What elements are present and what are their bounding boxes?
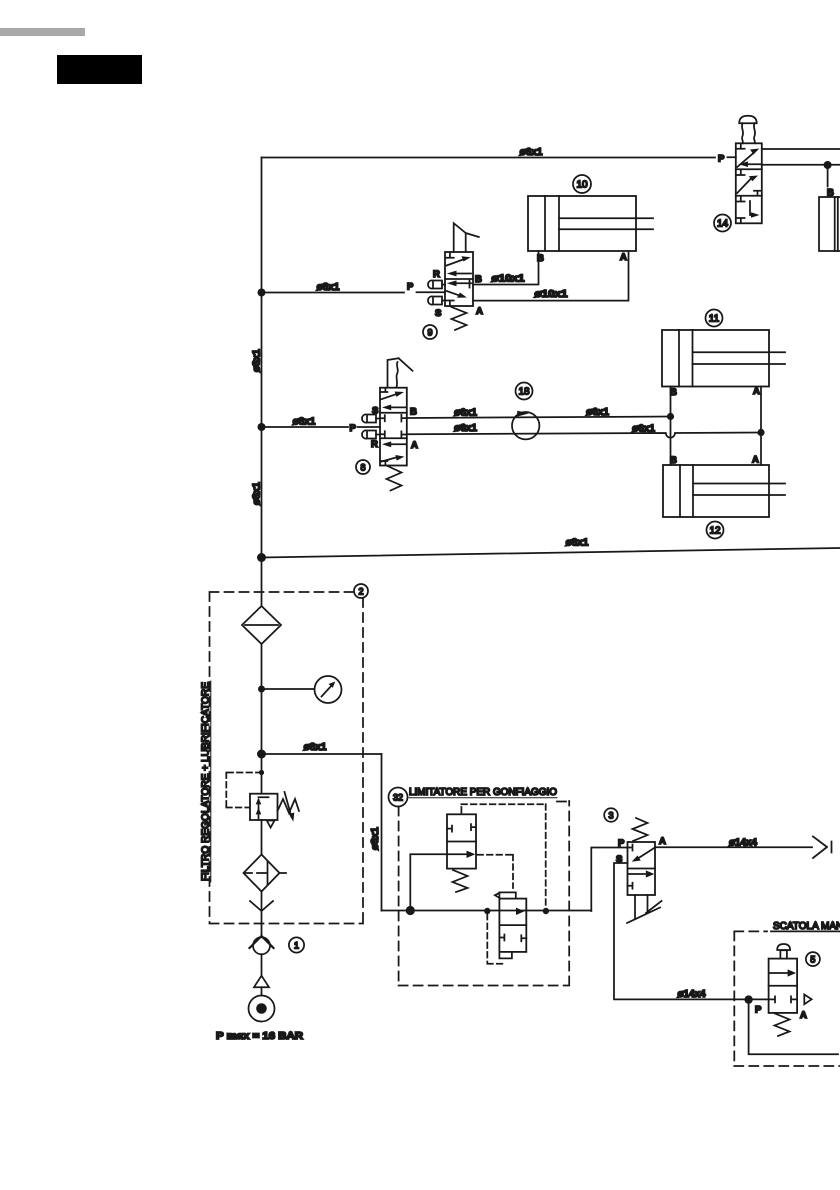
svg-text:R: R xyxy=(433,269,440,280)
rotary union 18 xyxy=(512,412,539,439)
svg-text:S: S xyxy=(372,406,378,417)
node: branch to limiter line xyxy=(257,750,266,759)
svg-text:3: 3 xyxy=(608,811,613,821)
wire: main supply bus vertical (ø8x1) xyxy=(261,158,263,996)
valve 8 return spring xyxy=(387,466,402,491)
cylinder 10 piston xyxy=(558,196,560,251)
wire: down and right to spare outlet xyxy=(749,1000,838,1055)
component number circle 3 xyxy=(604,808,618,822)
hose end connector arrow xyxy=(813,837,832,859)
cylinder 11 piston xyxy=(692,330,694,387)
svg-text:32: 32 xyxy=(393,793,403,803)
svg-text:5: 5 xyxy=(810,955,815,965)
svg-text:ø6x1: ø6x1 xyxy=(520,147,543,158)
limiter stage valve pilot cap xyxy=(499,892,515,898)
gray header bar xyxy=(0,28,85,36)
cylinder 10 body xyxy=(528,196,636,251)
svg-text:ø8x1: ø8x1 xyxy=(252,349,263,372)
air source S1 xyxy=(249,996,275,1022)
component number circle 14 xyxy=(714,215,731,232)
svg-text:P: P xyxy=(407,282,414,293)
cylinder 11 rod xyxy=(693,352,786,364)
valve 8 internals section 3 xyxy=(386,443,406,445)
wire: valve 8 B line ø6x1 to cylinders 11/12 B xyxy=(407,417,671,419)
cylinder 10 rear cap xyxy=(544,196,546,251)
component number circle 5 xyxy=(806,952,820,966)
svg-text:12: 12 xyxy=(709,526,721,537)
valve 9 body (5/2 lever valve) xyxy=(445,252,473,306)
valve 9 internals bottom section xyxy=(451,282,471,284)
node: pilot tap on bus xyxy=(259,770,264,775)
svg-text:R: R xyxy=(371,439,378,450)
inflation limiter dashed enclosure xyxy=(399,801,570,986)
svg-text:B: B xyxy=(670,455,677,466)
cylinder 12 rod xyxy=(693,484,785,496)
valve 5 spring xyxy=(775,1014,790,1037)
regulator vent triangle xyxy=(267,821,275,828)
relief valve flow arrow bottom section xyxy=(448,853,467,855)
wire: valve 3 A line ø14x4 to hose connection xyxy=(655,846,812,848)
node: bus to valve 8 branch xyxy=(258,423,266,431)
valve 14 body (5/3 push-button valve) xyxy=(736,143,762,223)
valve 9 exhaust muffler R xyxy=(428,280,442,288)
node: junction before valve 5 xyxy=(744,995,752,1003)
svg-text:P max = 16 BAR: P max = 16 BAR xyxy=(216,1031,304,1042)
svg-text:8: 8 xyxy=(360,463,365,473)
filter F1 diamond xyxy=(242,606,281,644)
node: A riser junction xyxy=(757,429,764,436)
valve 5 body (push button valve) xyxy=(769,959,798,1013)
limiter stage valve exhaust tab xyxy=(499,952,512,959)
cylinder 10 rod xyxy=(559,218,653,229)
FRL unit dashed enclosure 2 xyxy=(210,592,364,924)
valve 9 exhaust muffler S xyxy=(428,296,442,304)
svg-text:ø6x1: ø6x1 xyxy=(632,424,655,435)
svg-text:14: 14 xyxy=(717,219,729,230)
cylinder 13 body (cut off at page edge) xyxy=(819,197,840,251)
node: bus to long bottom line xyxy=(257,553,266,562)
node: B riser junction xyxy=(667,413,674,420)
valve 9 return spring xyxy=(452,307,467,330)
svg-text:ø14x4: ø14x4 xyxy=(729,838,757,849)
svg-text:A: A xyxy=(800,1010,807,1021)
wire: valve 3 S line down and right xyxy=(614,863,749,999)
component number circle 1 xyxy=(289,937,304,952)
node: bus to valve 9 branch xyxy=(258,289,266,297)
svg-text:P: P xyxy=(718,154,725,165)
svg-text:S: S xyxy=(435,308,441,319)
component number circle 2 xyxy=(354,584,368,598)
valve 8 internals section 1 xyxy=(381,388,387,392)
wire: branch ø8x1 to limiter drop xyxy=(262,753,382,755)
pilot dashed line stage valve xyxy=(487,914,504,964)
pilot dashed line relief valve xyxy=(461,804,545,906)
svg-text:ø8x1: ø8x1 xyxy=(293,417,316,428)
relief valve closed ports top section xyxy=(447,824,476,832)
wire: valve 9 A to cylinder 10 A (ø10x1) xyxy=(473,251,629,301)
lubricator drip V xyxy=(250,901,273,911)
node: stage valve inlet junction xyxy=(484,908,490,914)
svg-text:A: A xyxy=(620,252,627,263)
check valve 1 ball xyxy=(253,937,270,954)
pilot line dashed to regulator xyxy=(226,773,261,808)
cylinder 13 rear cap xyxy=(834,197,836,251)
svg-text:1: 1 xyxy=(294,941,299,951)
wire: top header line ø6x1 xyxy=(262,156,736,158)
wire: limiter main line xyxy=(382,910,592,912)
wire: long bottom distribution line ø8x1 xyxy=(262,548,840,558)
component number circle 32 xyxy=(389,788,408,807)
wire: valve 14 second output to right edge xyxy=(762,164,840,166)
valve 8 exhaust muffler S xyxy=(362,414,376,422)
valve 9 muffler S stub xyxy=(442,300,445,302)
scatola dashed enclosure xyxy=(734,931,840,1066)
valve 14 internals section 1 xyxy=(737,144,744,149)
valve 8 muffler R stub xyxy=(376,434,380,436)
component number circle 12 xyxy=(707,522,724,539)
svg-text:SCATOLA MANO: SCATOLA MANO xyxy=(773,921,840,932)
svg-text:A: A xyxy=(659,836,666,847)
valve 14 internals section 2 xyxy=(737,170,744,175)
limiter stage valve flow arrow xyxy=(516,908,525,915)
node: branch to cylinder 13 xyxy=(824,161,832,169)
regulator spring xyxy=(278,799,300,813)
wire: to valve 5 P xyxy=(749,998,769,1000)
limiter stage valve body xyxy=(499,899,526,952)
wire: feed to relief valve xyxy=(410,854,447,910)
svg-text:9: 9 xyxy=(427,328,432,338)
svg-text:P: P xyxy=(755,1005,762,1016)
valve 3 spring xyxy=(633,818,648,841)
valve 3 top section internals xyxy=(628,845,633,851)
valve 3 pedal actuator xyxy=(627,895,662,923)
cylinder 11 rear cap xyxy=(678,330,680,387)
svg-text:ø14x4: ø14x4 xyxy=(678,989,706,1000)
svg-text:B: B xyxy=(670,387,677,398)
pressure gauge G1 xyxy=(315,676,342,703)
component number circle 11 xyxy=(706,310,723,327)
wire: P line to valve 8 (ø8x1) xyxy=(262,426,381,428)
node: stage valve outlet junction xyxy=(543,908,549,914)
wire: drop line to limiter group xyxy=(381,754,383,911)
valve 5 bottom section closed ports xyxy=(770,996,796,1002)
label SCATOLA MAN underline xyxy=(771,930,840,932)
regulator adjusting arrow xyxy=(285,792,292,817)
supply connection triangle xyxy=(254,976,269,988)
svg-text:A: A xyxy=(476,306,483,317)
valve 3 body (deflate valve) xyxy=(628,842,656,895)
valve 8 body (5/3 lever valve) xyxy=(380,388,407,466)
component number circle 10 xyxy=(573,175,591,193)
svg-text:A: A xyxy=(753,386,760,397)
cylinder 12 rear cap xyxy=(679,465,681,517)
svg-text:FILTRO REGOLATORE + LUBRIFICAT: FILTRO REGOLATORE + LUBRIFICATORE xyxy=(201,682,212,881)
component number circle 8 xyxy=(356,460,370,474)
svg-text:ø6x1: ø6x1 xyxy=(454,408,477,419)
svg-text:ø8x1: ø8x1 xyxy=(370,827,381,850)
svg-text:ø10x1: ø10x1 xyxy=(492,274,526,285)
valve 5 push button xyxy=(780,950,787,958)
wire: riser to valve 3 P xyxy=(591,848,627,912)
svg-text:LIMITATORE PER GONFIAGGIO: LIMITATORE PER GONFIAGGIO xyxy=(409,787,557,798)
valve 3 bottom section internals xyxy=(629,873,646,875)
wire: A riser cylinder 11 A to cylinder 12 A xyxy=(760,387,762,466)
wire: valve 9 B to cylinder 10 B (ø10x1) xyxy=(473,251,539,285)
relief valve spring xyxy=(453,870,468,892)
svg-text:2: 2 xyxy=(358,587,363,597)
valve 5 exhaust triangle xyxy=(804,995,811,1005)
node: gauge branch xyxy=(258,686,265,693)
valve 9 internals top section xyxy=(446,253,454,258)
valve 14 internals section 3 xyxy=(737,197,744,202)
svg-text:ø6x1: ø6x1 xyxy=(454,423,477,434)
check valve 1 seat xyxy=(250,936,274,948)
wire: down to cylinder 13 port B xyxy=(827,165,829,187)
valve 8 internals closed centre section xyxy=(380,415,407,422)
valve 8 muffler S stub xyxy=(376,418,380,420)
svg-text:A: A xyxy=(411,440,418,451)
svg-text:ø8x1: ø8x1 xyxy=(304,742,327,753)
wire: valve 8 A line ø6x1 with hop over B riser xyxy=(407,433,761,438)
valve 8 lever actuator xyxy=(388,358,413,387)
svg-text:18: 18 xyxy=(518,387,530,398)
cylinder 12 piston xyxy=(692,465,694,517)
svg-text:ø6x1: ø6x1 xyxy=(586,407,609,418)
svg-text:10: 10 xyxy=(576,180,588,191)
svg-text:P: P xyxy=(350,423,357,434)
svg-text:ø8x1: ø8x1 xyxy=(566,538,589,549)
cylinder 11 body xyxy=(662,330,769,387)
wire: to pressure gauge xyxy=(262,688,315,690)
component number circle 9 xyxy=(423,325,437,339)
valve 8 exhaust muffler R xyxy=(362,430,376,438)
cylinder 13 piston xyxy=(837,197,839,251)
relief pilot valve body xyxy=(447,814,476,868)
lubricator L1 diamond xyxy=(244,855,280,892)
svg-text:A: A xyxy=(752,455,759,466)
pressure regulator R1 body xyxy=(250,794,278,820)
pilot dashed line relief to stage valve xyxy=(478,855,514,888)
valve 5 top section flow arrow xyxy=(770,972,787,974)
valve 14 push button actuator xyxy=(739,116,757,124)
cylinder 12 body xyxy=(663,465,769,517)
svg-text:ø8x1: ø8x1 xyxy=(252,482,263,505)
svg-text:B: B xyxy=(537,253,544,264)
node: limiter main junction xyxy=(406,906,415,915)
svg-text:B: B xyxy=(410,407,417,418)
limiter stage valve closed ports xyxy=(499,935,526,942)
wire: B riser cylinder 11 B to cylinder 12 B xyxy=(670,387,672,466)
valve 9 muffler R stub xyxy=(442,284,445,286)
svg-text:ø10x1: ø10x1 xyxy=(535,289,569,300)
svg-text:B: B xyxy=(475,274,482,285)
svg-text:11: 11 xyxy=(709,314,720,325)
component number circle 18 xyxy=(516,383,533,400)
svg-text:P: P xyxy=(618,838,625,849)
wire: valve 14 top output to right edge xyxy=(762,148,840,150)
svg-text:ø8x1: ø8x1 xyxy=(317,282,340,293)
valve 9 lever actuator xyxy=(454,223,479,251)
regulator internal arrows xyxy=(259,797,269,818)
black title block xyxy=(57,55,142,84)
wire: P line to valve 9 (ø8x1) xyxy=(262,291,446,293)
